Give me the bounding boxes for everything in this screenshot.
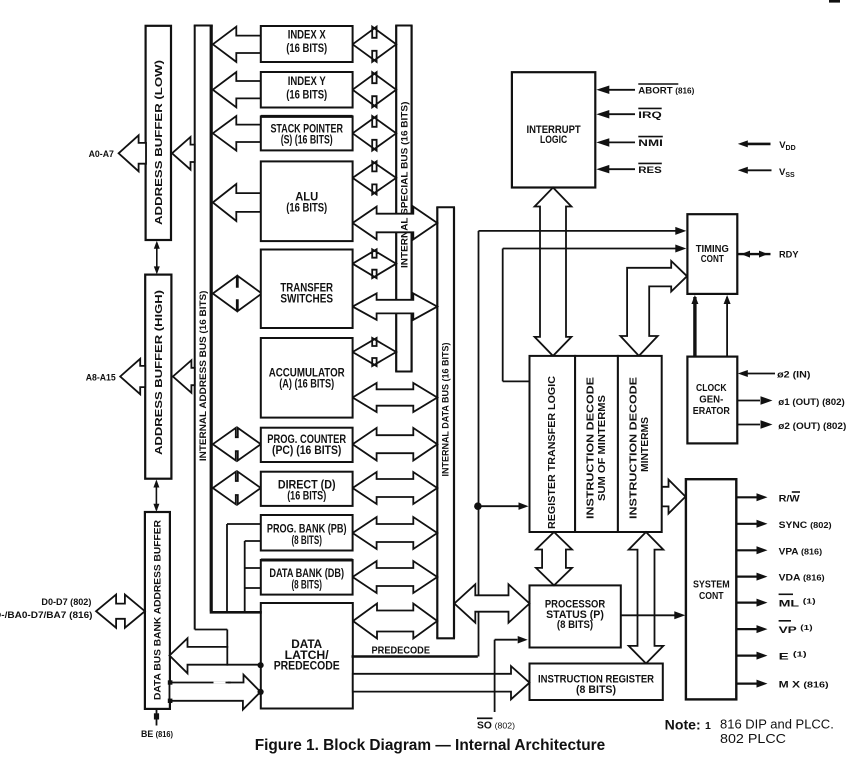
arrow stack pointer to special bus [353, 116, 397, 151]
svg-text:R/W: R/W [779, 493, 800, 504]
input RES with arrow into interrupt logic [596, 163, 662, 176]
svg-text:SYNC (802): SYNC (802) [779, 520, 832, 531]
input NMI with arrow into interrupt logic [596, 137, 663, 150]
output E (1) from system cont [736, 652, 806, 663]
svg-text:802 PLCC: 802 PLCC [720, 732, 786, 746]
arrow A8-A15 out of address buffer high [120, 359, 145, 394]
label SO (802) [477, 718, 515, 731]
svg-text:GEN-: GEN- [699, 393, 723, 405]
svg-text:INDEX X: INDEX X [288, 28, 326, 42]
svg-text:ø1 (OUT) (802): ø1 (OUT) (802) [778, 397, 845, 408]
svg-text:RDY: RDY [779, 250, 799, 261]
svg-text:(16 BITS): (16 BITS) [286, 88, 327, 102]
input ABORT with arrow into interrupt logic [596, 84, 694, 97]
arrow index x to special bus [353, 27, 397, 62]
arrow prog counter to internal data bus [353, 428, 438, 461]
svg-text:REGISTER TRANSFER LOGIC: REGISTER TRANSFER LOGIC [547, 376, 558, 529]
clock generator box [687, 357, 737, 444]
register box DATA BANK [261, 560, 353, 595]
output VDA (816) from system cont [736, 573, 824, 584]
arrow transfer switches to address bus [213, 276, 262, 311]
instruction register box [530, 664, 663, 701]
note line 2 [720, 732, 786, 746]
svg-text:SYSTEM: SYSTEM [693, 579, 730, 591]
wire predecode net into register transfer logic [479, 502, 529, 510]
instruction decode sum of minterms box [575, 356, 618, 532]
arrow alu to internal data bus [353, 207, 438, 240]
svg-text:(16 BITS): (16 BITS) [286, 200, 327, 214]
svg-text:M X (816): M X (816) [779, 680, 829, 691]
note line 1 [720, 718, 834, 732]
svg-text:LOGIC: LOGIC [540, 134, 567, 146]
register box PROG COUNTER [261, 428, 353, 462]
arrow transfer switches to special bus [353, 249, 397, 278]
svg-text:RES: RES [638, 165, 662, 176]
label internal address bus (16 bits) [198, 291, 209, 462]
arrow data bank to internal data bus [353, 561, 438, 593]
svg-text:DATA BUS BANK ADDRESS BUFFER: DATA BUS BANK ADDRESS BUFFER [153, 520, 164, 700]
svg-text:INTERNAL SPECIAL BUS (16 BITS): INTERNAL SPECIAL BUS (16 BITS) [400, 102, 411, 269]
svg-text:ERATOR: ERATOR [693, 405, 730, 417]
wire clock generator to timing cont (phase lines) [691, 295, 730, 357]
output M X (816) from system cont [736, 680, 829, 691]
processor status box [530, 585, 621, 647]
svg-text:1: 1 [705, 720, 711, 732]
interrupt logic box [512, 72, 595, 187]
wire predecode from data latch [352, 655, 478, 657]
wire predecode net to timing cont (upper) [479, 227, 687, 657]
svg-text:ADDRESS BUFFER (LOW): ADDRESS BUFFER (LOW) [154, 60, 165, 225]
timing cont box [687, 214, 737, 294]
svg-text:PREDECODE: PREDECODE [372, 645, 431, 657]
arrow alu to address bus [213, 184, 261, 221]
supply VDD arrow [738, 140, 796, 152]
label D0-D7 (802) [41, 597, 91, 608]
output R/W from system cont [736, 492, 800, 504]
wire address bus left rail elbow to bank-buffer arrow [195, 630, 228, 648]
arrow address bus to address buffer high [173, 360, 195, 393]
svg-text:ø2 (IN): ø2 (IN) [777, 369, 810, 380]
arrow index x to address bus [213, 27, 261, 62]
label data bus bank address buffer [153, 520, 164, 700]
output phi2 (OUT) (802) [737, 420, 846, 432]
address buffer (high) box [145, 275, 171, 479]
svg-text:SUM OF MINTERMS: SUM OF MINTERMS [597, 395, 608, 501]
label D0/BA0-D7/BA7 (816) [0, 610, 93, 621]
register box ALU [261, 161, 353, 241]
arrow data latch to internal data bus [353, 604, 437, 639]
svg-text:NMI: NMI [638, 138, 663, 149]
arrow D0-D7 data bus to bank buffer [96, 595, 145, 628]
output phi1 (OUT) (802) [737, 396, 845, 408]
thick top edge of data bank box [261, 559, 353, 562]
caption figure 1 [255, 737, 606, 754]
arrow stack pointer to address bus [213, 116, 261, 151]
BE (816) stub with node [154, 709, 159, 726]
wire SO (802) set overflow input [495, 636, 528, 712]
svg-text:MINTERMS: MINTERMS [640, 417, 651, 472]
wire lower shaft line to data latch node [227, 662, 264, 668]
arrow instruction decode minterms to system cont [662, 480, 686, 514]
svg-text:(PC) (16 BITS): (PC) (16 BITS) [272, 443, 341, 457]
arrow internal data bus to processor status [454, 584, 529, 622]
wire processor status to system cont [621, 611, 686, 619]
arrow prog counter to address bus [213, 428, 261, 461]
svg-text:ø2 (OUT) (802): ø2 (OUT) (802) [778, 421, 846, 432]
svg-text:ABORT (816): ABORT (816) [638, 86, 694, 97]
svg-text:ADDRESS BUFFER (HIGH): ADDRESS BUFFER (HIGH) [154, 290, 165, 455]
svg-text:A0-A7: A0-A7 [89, 149, 114, 160]
register box INDEX Y [261, 72, 353, 108]
connector low-to-high buffer [154, 241, 160, 275]
register box TRANSFER SWITCHES [261, 250, 353, 329]
svg-text:SO (802): SO (802) [477, 721, 515, 732]
register box PROG BANK [261, 515, 353, 551]
bus: internal address bus top cap [194, 25, 213, 27]
register box ACCUMULATOR [261, 338, 353, 418]
label address buffer (high) [154, 290, 165, 455]
thick top edge of stack pointer box [261, 115, 353, 118]
label internal data bus (16 bits) [441, 343, 452, 477]
label address buffer (low) [154, 60, 165, 225]
input IRQ with arrow into interrupt logic [596, 108, 661, 121]
arrow direct to internal data bus [353, 472, 438, 504]
label BE (816) [141, 729, 173, 740]
label internal special bus (16 bits) [400, 102, 411, 269]
arrow transfer switches to internal data bus [353, 293, 438, 319]
arrow data bus buffer into data latch/predecode [168, 675, 264, 710]
label predecode [372, 645, 431, 657]
svg-text:PREDECODE: PREDECODE [274, 659, 340, 673]
bus: internal data bus (16 bits) rails and caps [436, 207, 455, 638]
wire prog bank lower stub chain to data bank and data latch [245, 541, 261, 611]
svg-text:(16 BITS): (16 BITS) [287, 489, 326, 503]
label A0-A7 [89, 149, 114, 160]
svg-text:INSTRUCTION DECODE: INSTRUCTION DECODE [629, 377, 640, 519]
arrow data latch to instruction register [353, 666, 530, 699]
arrow into data-bus-bank-address buffer (address feed) [170, 638, 228, 673]
svg-text:CONT: CONT [701, 253, 724, 265]
instruction decode minterms box [618, 356, 662, 532]
supply VSS arrow [738, 167, 795, 179]
label A8-A15 [86, 373, 117, 384]
svg-text:CLOCK: CLOCK [696, 382, 727, 394]
wire to timing cont (lower) from register transfer logic [503, 245, 687, 382]
svg-text:CONT: CONT [699, 590, 724, 602]
note heading [665, 717, 711, 733]
arrow index y to address bus [213, 72, 261, 107]
system cont box [686, 479, 736, 699]
arrow instruction decode minterms to instruction register [629, 532, 664, 664]
arrow direct to address bus [213, 472, 261, 505]
svg-text:Figure 1. Block Diagram — Inte: Figure 1. Block Diagram — Internal Archi… [255, 737, 606, 754]
svg-text:INTERNAL DATA BUS (16 BITS): INTERNAL DATA BUS (16 BITS) [441, 343, 452, 477]
arrow accumulator to internal data bus [353, 383, 438, 412]
arrow interrupt logic to register transfer logic [535, 188, 572, 356]
svg-text:VDA (816): VDA (816) [779, 573, 825, 584]
output VP (1) from system cont [736, 621, 812, 636]
register transfer logic box [530, 356, 576, 532]
svg-text:816 DIP and PLCC.: 816 DIP and PLCC. [720, 718, 834, 732]
connector high-to-bank buffer [153, 480, 159, 512]
data bus bank address buffer box [145, 512, 170, 709]
node junction predecode net [474, 502, 482, 510]
arrow A0-A7 out of address buffer low [119, 135, 146, 171]
output VPA (816) from system cont [736, 546, 822, 557]
svg-text:SWITCHES: SWITCHES [280, 292, 333, 306]
input phi2 (IN) arrow into clock generator [738, 369, 811, 380]
output SYNC (802) from system cont [736, 520, 831, 531]
bus: internal address bus (16 bits) left rail [194, 26, 196, 630]
output ML (1) from system cont [736, 594, 815, 609]
svg-text:D-/BA0-D7/BA7 (816): D-/BA0-D7/BA7 (816) [0, 610, 93, 621]
arrow instruction decode minterms to timing cont (T shape) [620, 261, 687, 356]
svg-text:IRQ: IRQ [638, 110, 661, 121]
svg-text:BE (816): BE (816) [141, 729, 173, 740]
svg-text:A8-A15: A8-A15 [86, 373, 117, 384]
wire prog bank upper stub [227, 524, 261, 611]
svg-text:(A) (16 BITS): (A) (16 BITS) [279, 377, 334, 391]
svg-text:(16 BITS): (16 BITS) [286, 41, 327, 55]
label RDY with double arrow [738, 250, 799, 261]
address buffer (low) box [146, 26, 171, 240]
svg-text:INTERNAL ADDRESS BUS (16 BITS): INTERNAL ADDRESS BUS (16 BITS) [198, 291, 209, 462]
wire address bus right rail to data latch [210, 611, 262, 614]
arrow register transfer logic to processor status [536, 532, 572, 585]
svg-text:D0-D7 (802): D0-D7 (802) [41, 597, 91, 608]
svg-text:INDEX Y: INDEX Y [288, 74, 326, 88]
arrow accumulator to special bus [353, 338, 397, 366]
arrow alu to special bus [353, 161, 397, 194]
svg-text:VPA (816): VPA (816) [779, 546, 823, 557]
bus: internal address bus (16 bits) right rail [210, 26, 213, 612]
register box INDEX X [261, 26, 353, 62]
svg-text:(8 BITS): (8 BITS) [291, 577, 322, 591]
svg-text:INSTRUCTION DECODE: INSTRUCTION DECODE [586, 377, 597, 519]
register box DATA LATCH/PREDECODE [261, 603, 353, 709]
svg-text:(S) (16 BITS): (S) (16 BITS) [281, 132, 333, 146]
svg-text:(8 BITS): (8 BITS) [291, 533, 322, 547]
scan artifact top right [829, 0, 840, 3]
arrow prog bank to internal data bus [353, 517, 438, 549]
arrow address bus to address buffer low [172, 137, 195, 170]
bus: internal special bus (16 bits) rails and caps [395, 26, 412, 372]
arrow index y to special bus [353, 72, 397, 107]
svg-text:(8 BITS): (8 BITS) [557, 619, 593, 631]
register box STACK POINTER [261, 116, 353, 150]
svg-text:(8 BITS): (8 BITS) [576, 684, 616, 696]
svg-text:Note:: Note: [665, 717, 701, 733]
register box DIRECT [261, 472, 353, 506]
